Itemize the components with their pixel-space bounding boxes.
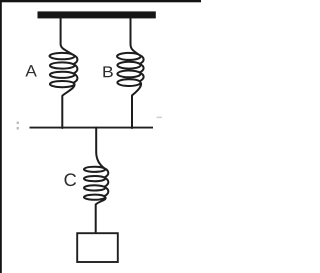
label A — [25, 65, 36, 76]
fixed support bar — [38, 11, 156, 18]
spring C — [84, 128, 108, 234]
spring B — [117, 18, 144, 128]
faint colon artifact — [17, 122, 19, 125]
left border line — [0, 0, 2, 273]
faint dash artifact — [157, 117, 162, 119]
connecting bar wire — [30, 127, 154, 129]
mass block — [77, 233, 118, 262]
label C — [64, 173, 76, 186]
label B — [103, 66, 112, 77]
spring A — [50, 18, 78, 128]
top border line — [0, 0, 201, 2]
